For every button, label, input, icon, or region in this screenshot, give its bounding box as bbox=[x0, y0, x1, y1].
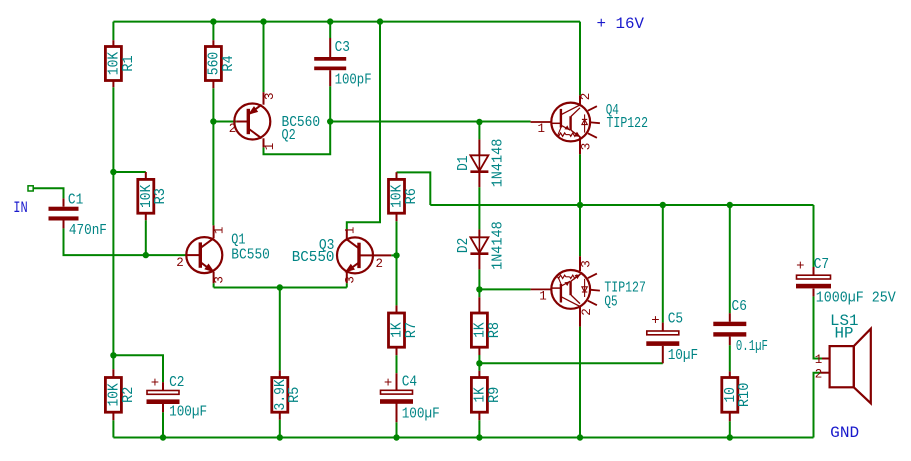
resistor R5 bbox=[272, 370, 303, 419]
svg-text:2: 2 bbox=[815, 368, 823, 382]
svg-text:0.1µF: 0.1µF bbox=[736, 338, 768, 355]
resistor R2 bbox=[105, 369, 136, 420]
wire Q2 emitter to rail bbox=[263, 22, 265, 93]
wire Q1 emitter drop bbox=[213, 283, 215, 287]
svg-text:HP: HP bbox=[835, 325, 854, 343]
wire R2 bottom bbox=[112, 420, 114, 437]
wire +16V to Q4 collector bbox=[579, 22, 581, 96]
svg-text:R10: R10 bbox=[736, 383, 753, 408]
wire C2 bottom bbox=[162, 412, 164, 437]
transistor Q4 TIP122 bbox=[531, 93, 648, 154]
svg-text:C3: C3 bbox=[335, 39, 350, 56]
wire R1 top bbox=[112, 22, 114, 41]
wire R8-R9 junction bbox=[478, 355, 480, 371]
svg-text:1: 1 bbox=[539, 290, 547, 304]
svg-text:D1: D1 bbox=[455, 156, 472, 171]
wire D2 junction to Q5 base bbox=[479, 288, 530, 290]
wire Q5 emitter to output bbox=[579, 205, 581, 256]
wire D2 bottom bbox=[478, 269, 480, 289]
capacitor C3 bbox=[314, 38, 371, 89]
wire Q2 collector jog bbox=[264, 122, 331, 155]
resistor R1 bbox=[105, 40, 136, 87]
wire +16V top rail bbox=[113, 21, 580, 23]
svg-text:10µF: 10µF bbox=[668, 347, 699, 364]
wire Q3 emitter drop bbox=[346, 283, 348, 287]
wire Q3 base stub bbox=[391, 254, 396, 256]
svg-text:100µF: 100µF bbox=[169, 404, 207, 421]
svg-text:3: 3 bbox=[580, 143, 594, 151]
wire R4 top bbox=[212, 22, 214, 41]
speaker LS1 bbox=[815, 312, 871, 403]
svg-text:R4: R4 bbox=[220, 55, 237, 71]
wire +16V to Q3 collector bbox=[347, 22, 380, 230]
wire ground rail bbox=[113, 437, 813, 439]
wire R9 bottom bbox=[478, 420, 480, 437]
svg-text:C4: C4 bbox=[402, 373, 417, 390]
svg-text:1N4148: 1N4148 bbox=[489, 139, 506, 188]
svg-text:D2: D2 bbox=[455, 238, 472, 253]
wire Q2 base bbox=[213, 121, 236, 123]
capacitor C7 bbox=[796, 256, 896, 306]
wire C3 bottom to Q4 base bbox=[329, 86, 331, 121]
svg-text:+: + bbox=[651, 313, 659, 329]
wire bias to R3 bbox=[113, 171, 145, 173]
svg-text:+: + bbox=[796, 259, 804, 275]
wire D1-D2 link bbox=[478, 187, 480, 229]
svg-text:C7: C7 bbox=[814, 256, 829, 273]
wire output rail bbox=[430, 204, 813, 206]
svg-text:Q2: Q2 bbox=[282, 127, 296, 144]
wire C3 top bbox=[329, 22, 331, 38]
svg-text:R9: R9 bbox=[486, 387, 503, 403]
svg-text:IN: IN bbox=[13, 199, 27, 217]
diode D2 bbox=[455, 221, 506, 270]
wire bootstrap to C5 bbox=[479, 362, 662, 364]
svg-text:GND: GND bbox=[830, 424, 859, 442]
wire C4 bottom bbox=[396, 422, 398, 437]
svg-text:R5: R5 bbox=[286, 387, 303, 403]
svg-text:2: 2 bbox=[229, 122, 237, 136]
wire C6 top bbox=[729, 205, 731, 313]
transistor Q5 TIP127 bbox=[531, 256, 646, 326]
node IN port square bbox=[28, 186, 33, 191]
wire R6 bottom to Q3 base bbox=[396, 221, 398, 255]
wire C5 top bbox=[662, 205, 664, 323]
svg-text:+ 16V: + 16V bbox=[597, 15, 645, 33]
wire LS1 pin2 to ground bbox=[814, 373, 822, 438]
wire R5 top bbox=[279, 288, 281, 371]
svg-text:1: 1 bbox=[537, 122, 545, 136]
transistor Q2 bbox=[229, 92, 320, 150]
svg-text:+: + bbox=[151, 376, 159, 392]
svg-text:2: 2 bbox=[580, 308, 594, 316]
capacitor C1 bbox=[49, 192, 107, 239]
wire R10 bottom bbox=[729, 421, 731, 437]
svg-text:1: 1 bbox=[263, 143, 277, 151]
svg-text:470nF: 470nF bbox=[69, 222, 107, 239]
capacitor C5 bbox=[646, 311, 698, 365]
capacitor C6 bbox=[713, 298, 768, 355]
svg-text:C2: C2 bbox=[169, 374, 184, 391]
svg-text:C5: C5 bbox=[668, 311, 683, 328]
svg-text:R3: R3 bbox=[152, 188, 169, 204]
resistor R9 bbox=[471, 371, 502, 420]
diode D1 bbox=[455, 139, 506, 188]
svg-text:1: 1 bbox=[344, 227, 358, 235]
wire C7 to LS1 pin1 bbox=[814, 296, 823, 358]
svg-text:2: 2 bbox=[579, 93, 593, 101]
capacitor C2 bbox=[147, 374, 208, 421]
resistor R4 bbox=[205, 40, 236, 88]
transistor Q1 bbox=[176, 225, 270, 283]
svg-text:100pF: 100pF bbox=[335, 72, 372, 89]
label IN bbox=[13, 199, 27, 217]
wire C6 to R10 bbox=[729, 345, 731, 371]
svg-text:3: 3 bbox=[263, 92, 277, 100]
wire R3 bottom stub bbox=[145, 220, 147, 255]
svg-text:C1: C1 bbox=[68, 192, 83, 209]
resistor R8 bbox=[471, 297, 502, 355]
wire C7 top bbox=[813, 205, 815, 267]
wire R4 bottom to Q1 collector bbox=[212, 88, 214, 225]
resistor R10 bbox=[722, 371, 753, 421]
svg-text:R1: R1 bbox=[120, 55, 137, 71]
svg-text:3: 3 bbox=[213, 276, 227, 284]
svg-text:1000µF 25V: 1000µF 25V bbox=[816, 290, 896, 307]
wire R5 bottom bbox=[279, 420, 281, 438]
wire R6 feedback jog bbox=[397, 172, 431, 205]
wire emitter rail bbox=[214, 287, 347, 289]
label GND bbox=[830, 424, 859, 442]
resistor R3 bbox=[138, 172, 169, 220]
svg-text:Q5: Q5 bbox=[604, 293, 617, 310]
svg-text:2: 2 bbox=[176, 256, 184, 270]
wire C2 branch bbox=[113, 355, 163, 382]
wire Q5 collector to ground bbox=[579, 327, 581, 438]
svg-text:1N4148: 1N4148 bbox=[489, 221, 506, 270]
svg-text:R2: R2 bbox=[120, 387, 137, 403]
resistor R6 bbox=[389, 172, 420, 221]
wire Q2C junction to Q4 base bbox=[330, 121, 530, 123]
resistor R7 bbox=[389, 305, 420, 355]
svg-text:100µF: 100µF bbox=[402, 405, 440, 422]
wire R7 bottom to C4 bbox=[396, 355, 398, 373]
transistor Q3 bbox=[292, 227, 392, 284]
svg-text:TIP122: TIP122 bbox=[607, 115, 649, 132]
svg-text:3: 3 bbox=[580, 260, 594, 268]
wire Q4 emitter to output bbox=[579, 154, 581, 205]
svg-text:R8: R8 bbox=[486, 322, 503, 338]
svg-text:1: 1 bbox=[815, 353, 823, 367]
wire IN to C1 bbox=[33, 188, 63, 198]
svg-text:BC550: BC550 bbox=[231, 247, 270, 264]
wire R1 bottom to R2 bbox=[112, 87, 114, 369]
svg-text:1: 1 bbox=[213, 227, 227, 235]
svg-text:+: + bbox=[384, 375, 392, 391]
svg-text:C6: C6 bbox=[732, 298, 747, 315]
svg-text:R7: R7 bbox=[403, 322, 420, 338]
wire C1 to Q1 base bbox=[64, 228, 187, 255]
svg-text:R6: R6 bbox=[403, 188, 420, 204]
capacitor C4 bbox=[380, 373, 440, 422]
wire Q3 base junction to R7 bbox=[396, 255, 398, 305]
wire D1 top bbox=[478, 122, 480, 139]
svg-text:2: 2 bbox=[375, 257, 383, 271]
svg-text:3: 3 bbox=[344, 276, 358, 284]
wire D junction to R8 bbox=[478, 289, 480, 297]
svg-text:BC550: BC550 bbox=[292, 249, 335, 266]
label +16V bbox=[597, 15, 645, 33]
